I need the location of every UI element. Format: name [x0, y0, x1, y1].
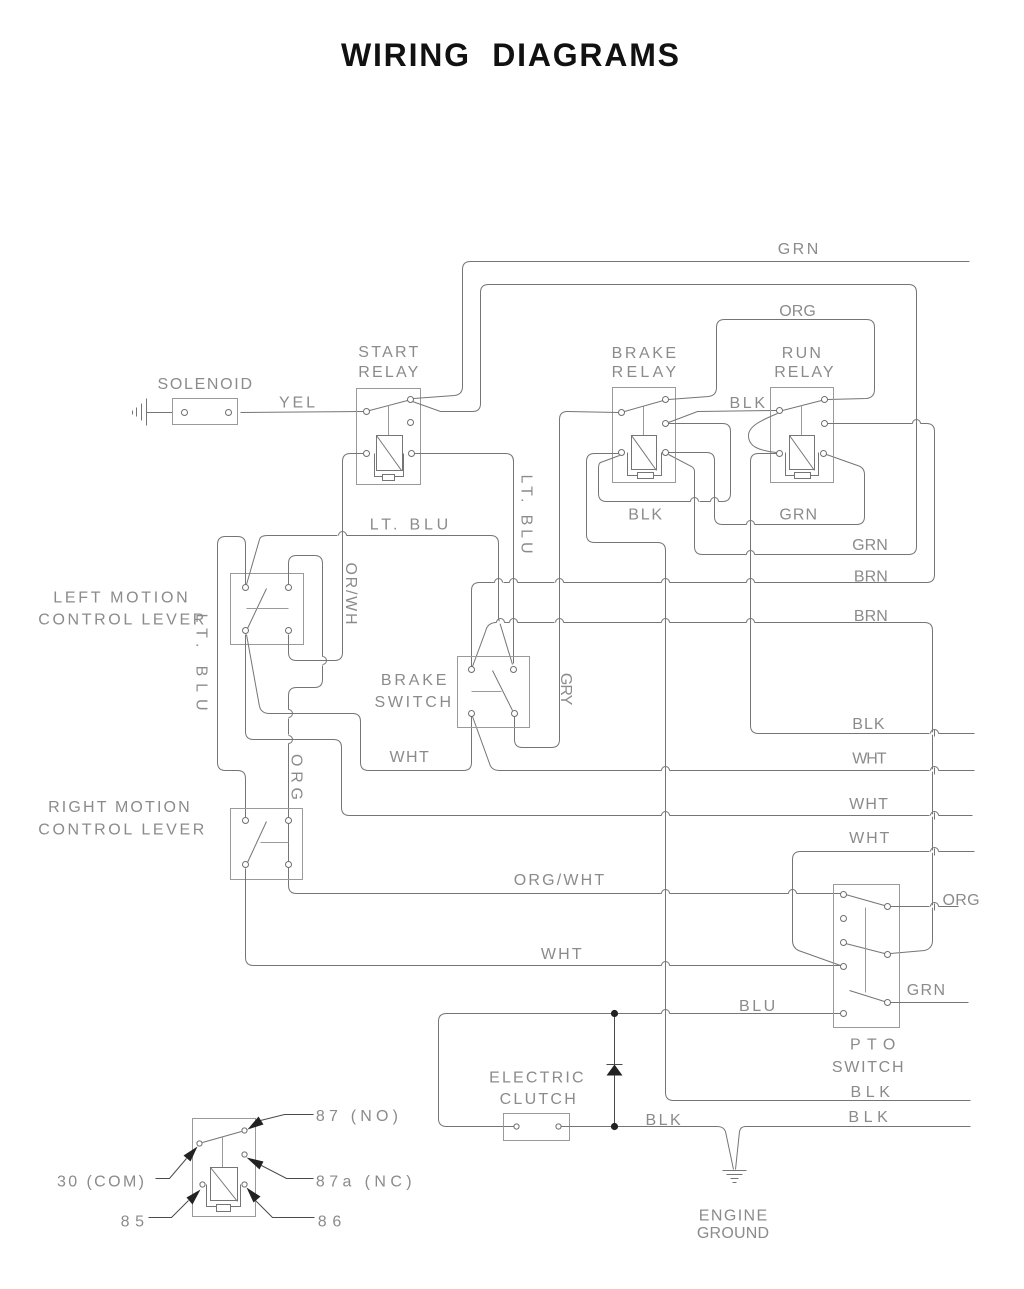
svg-text:ORG: ORG — [779, 303, 816, 320]
svg-text:BLK: BLK — [730, 395, 766, 412]
svg-text:WHT: WHT — [390, 749, 430, 766]
relay terminal legend — [193, 1119, 256, 1217]
svg-text:30 (COM): 30 (COM) — [57, 1173, 144, 1190]
wire: right lever TR to BR link — [288, 824, 290, 862]
svg-text:START: START — [358, 344, 418, 361]
svg-text:RELAY: RELAY — [358, 364, 418, 381]
svg-text:LT. BLU: LT. BLU — [518, 475, 535, 554]
svg-text:87a (NC): 87a (NC) — [316, 1173, 412, 1190]
svg-text:SOLENOID: SOLENOID — [158, 376, 253, 393]
svg-text:RELAY: RELAY — [774, 364, 834, 381]
svg-text:RELAY: RELAY — [612, 364, 677, 381]
engine ground symbol — [723, 1171, 747, 1183]
svg-text:LT. BLU: LT. BLU — [370, 516, 449, 533]
run relay coil — [786, 436, 819, 479]
diode D1 — [614, 1014, 616, 1127]
svg-text:BLU: BLU — [739, 998, 775, 1015]
start relay coil — [375, 436, 404, 481]
svg-text:ELECTRIC: ELECTRIC — [489, 1069, 583, 1086]
svg-text:GRN: GRN — [852, 537, 888, 554]
svg-text:BLK: BLK — [852, 716, 885, 733]
svg-text:WHT: WHT — [849, 830, 889, 847]
svg-text:RUN: RUN — [782, 345, 821, 362]
svg-text:WHT: WHT — [541, 946, 582, 963]
wire BLK: brake coil-L left, down, across, long vertical to bottom BLK — [587, 454, 971, 1101]
brake relay coil — [628, 436, 662, 479]
svg-text:BLK: BLK — [851, 1084, 891, 1101]
svg-text:OR/WH: OR/WH — [342, 563, 359, 625]
svg-text:GRN: GRN — [779, 507, 817, 524]
brake relay arm — [625, 401, 664, 412]
crossover hop patches — [286, 421, 935, 1017]
wire: left lever TR loop down to right lever TR — [289, 556, 323, 818]
svg-text:BRAKE: BRAKE — [381, 672, 447, 689]
svg-text:CLUTCH: CLUTCH — [500, 1091, 576, 1108]
svg-text:BLK: BLK — [628, 507, 662, 524]
svg-text:RIGHT MOTION: RIGHT MOTION — [48, 799, 190, 816]
svg-text:LEFT MOTION: LEFT MOTION — [53, 589, 188, 606]
ground (solenoid chassis ground) — [133, 399, 173, 426]
run relay common-to-coil arc — [749, 414, 778, 453]
start relay arm — [370, 401, 408, 411]
svg-text:GROUND: GROUND — [697, 1225, 769, 1242]
svg-text:GRN: GRN — [907, 982, 945, 999]
junction node: BLU/diode — [611, 1010, 618, 1017]
svg-text:ORG: ORG — [288, 754, 305, 800]
svg-text:GRN: GRN — [778, 241, 819, 258]
svg-text:PTO: PTO — [850, 1036, 895, 1053]
svg-text:WHT: WHT — [852, 750, 886, 767]
svg-text:ENGINE: ENGINE — [699, 1207, 767, 1224]
svg-text:YEL: YEL — [279, 395, 315, 412]
run relay arm — [783, 401, 822, 411]
svg-text:BRAKE: BRAKE — [612, 345, 677, 362]
svg-text:WHT: WHT — [849, 796, 888, 813]
junction node: BLK/diode — [611, 1123, 618, 1130]
svg-text:BLK: BLK — [848, 1109, 888, 1126]
svg-text:WIRING DIAGRAMS: WIRING DIAGRAMS — [341, 37, 679, 73]
crossover hops — [289, 420, 939, 1014]
